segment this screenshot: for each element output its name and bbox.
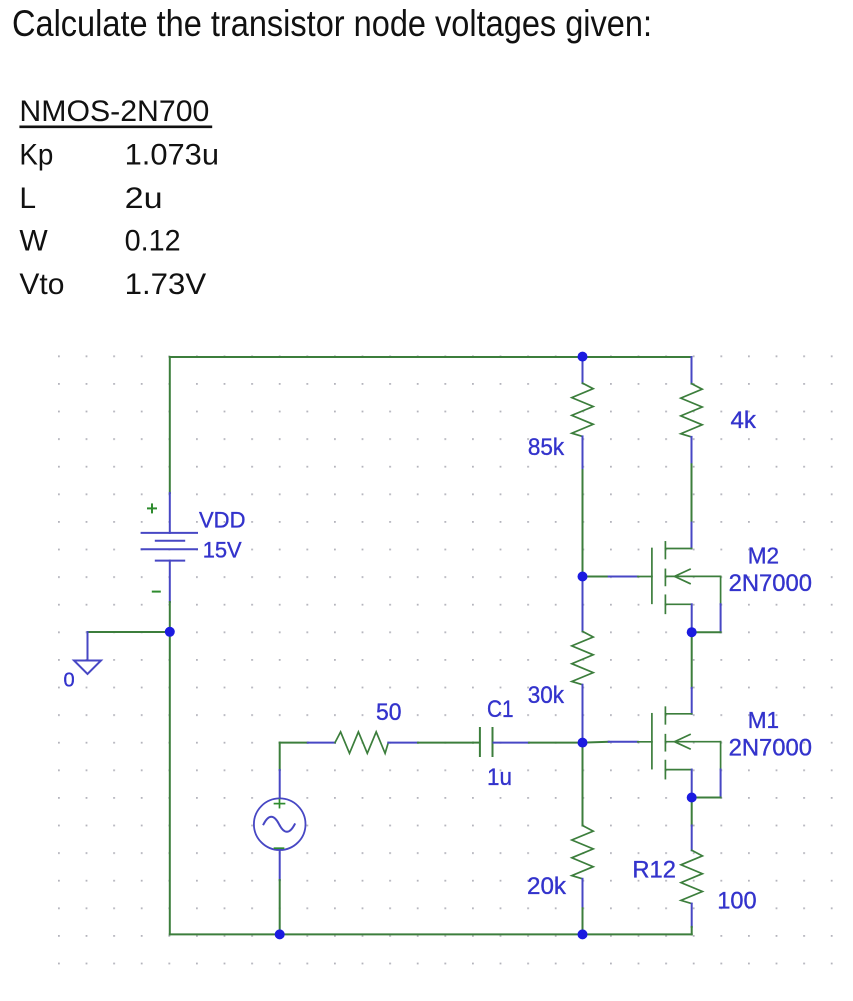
resistor R12 100: [681, 798, 702, 935]
svg-text:1.073u: 1.073u: [125, 139, 219, 172]
svg-text:85k: 85k: [528, 434, 565, 461]
wire left leg lower: [169, 632, 171, 934]
transistor M2 2N7000: [583, 542, 721, 632]
svg-text:1u: 1u: [487, 764, 512, 791]
svg-text:2N7000: 2N7000: [729, 735, 812, 762]
svg-text:C1: C1: [487, 696, 514, 723]
wire left leg: [169, 357, 171, 493]
svg-text:20k: 20k: [527, 873, 567, 900]
svg-text:Calculate the transistor node: Calculate the transistor node voltages g…: [12, 3, 652, 44]
wire top rail: [170, 356, 692, 358]
node sine bottom: [275, 929, 285, 939]
node M1 source / R12: [687, 793, 697, 803]
node battery minus / ground: [165, 627, 175, 637]
capacitor C1: [473, 728, 583, 756]
svg-text:L: L: [19, 182, 36, 215]
svg-text:30k: 30k: [528, 682, 565, 709]
resistor 50: [280, 732, 473, 753]
svg-text:4k: 4k: [731, 407, 757, 434]
svg-text:100: 100: [717, 888, 756, 915]
battery VDD 15V: [142, 493, 197, 602]
resistor 20k: [572, 743, 593, 935]
node 20k bottom: [578, 929, 588, 939]
svg-text:0.12: 0.12: [125, 224, 181, 257]
node M1 gate / C1 / 30k / 20k: [578, 738, 588, 748]
svg-text:2N7000: 2N7000: [729, 570, 812, 597]
wire ground stub: [88, 631, 170, 633]
svg-text:W: W: [19, 224, 48, 257]
svg-text:1.73V: 1.73V: [125, 268, 207, 301]
svg-text:NMOS-2N700: NMOS-2N700: [19, 95, 209, 128]
resistor 30k: [572, 577, 593, 743]
ground 0: [74, 632, 101, 674]
svg-text:Kp: Kp: [19, 139, 53, 172]
svg-text:M1: M1: [748, 707, 779, 733]
wire bottom rail: [170, 933, 692, 935]
svg-text:2u: 2u: [125, 182, 163, 215]
resistor 85k: [572, 356, 593, 576]
svg-text:M2: M2: [748, 542, 779, 568]
svg-text:VDD: VDD: [199, 508, 246, 533]
node M2 source / M1 drain: [687, 627, 697, 637]
node M2 gate / 85k / 30k: [578, 572, 588, 582]
transistor M1 2N7000: [583, 707, 721, 797]
resistor 4k: [681, 357, 702, 549]
svg-text:R12: R12: [632, 857, 676, 884]
svg-text:50: 50: [376, 699, 402, 726]
svg-text:15V: 15V: [203, 538, 242, 563]
node top rail / 85k: [578, 352, 588, 362]
sine source V2: [254, 743, 306, 935]
junction node dots: [165, 352, 697, 940]
svg-text:Vto: Vto: [19, 268, 64, 301]
wire battery to ground node: [169, 602, 171, 632]
svg-text:0: 0: [64, 670, 75, 692]
wire M2 source to M1 drain: [691, 632, 693, 688]
